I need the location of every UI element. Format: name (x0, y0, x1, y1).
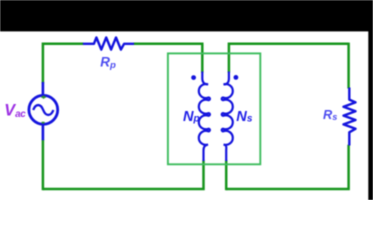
wire: primary top vertical (201, 44, 204, 73)
wire: secondary top vertical (229, 44, 349, 73)
black letterbox bar right (368, 0, 373, 202)
AC source bottom lead (42, 125, 45, 141)
black letterbox bar top (0, 0, 373, 31)
minus mark (42, 122, 45, 124)
wire: left vertical bottom (source to bottom rail) (42, 140, 45, 191)
wire: secondary bottom vertical (225, 160, 228, 190)
wire: top-left horizontal (source to Rp to primary) (43, 44, 84, 83)
resistor Rs (vertical zigzag) (344, 88, 356, 146)
resistor Rp (zigzag) (83, 38, 134, 50)
plus mark (41, 96, 46, 99)
transformer secondary coil Ns (222, 72, 233, 162)
transformer primary coil Np (199, 72, 210, 162)
AC source top lead (42, 82, 45, 95)
transformer boundary box (green rectangle) (168, 53, 260, 164)
polarity dot secondary (234, 75, 239, 80)
polarity dot primary (191, 75, 196, 80)
wire: primary bottom vertical (43, 160, 204, 189)
AC source sine wave (33, 105, 53, 115)
wire: right vertical top (to Rs) (347, 43, 350, 89)
wire: top between Rp and primary lead (134, 43, 204, 46)
AC source V1 circle (29, 95, 58, 124)
wire: right vertical bottom (Rs to bottom) (226, 145, 348, 189)
